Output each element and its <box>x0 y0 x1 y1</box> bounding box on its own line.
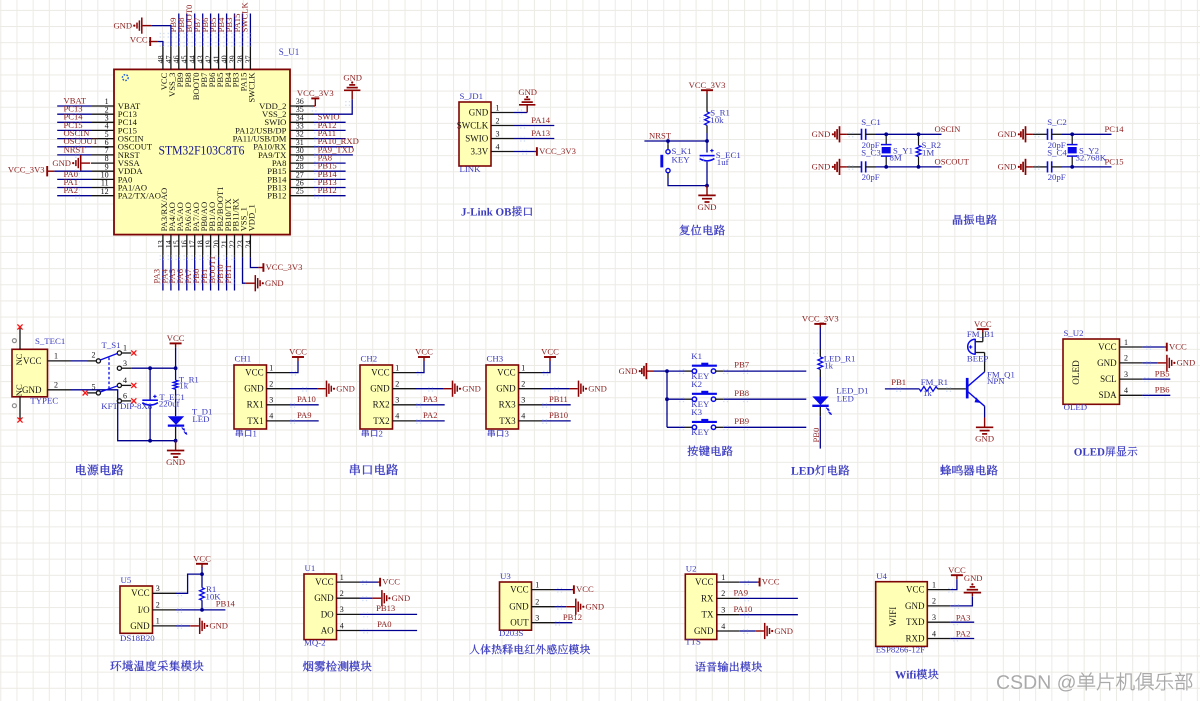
svg-text:U3: U3 <box>500 571 511 581</box>
svg-text:VCC: VCC <box>541 347 559 357</box>
svg-text:12: 12 <box>101 187 109 196</box>
svg-text:PB7: PB7 <box>734 360 750 370</box>
svg-text:NRST: NRST <box>64 144 87 154</box>
svg-text:VDD_1: VDD_1 <box>247 204 257 231</box>
svg-text:OLED: OLED <box>1064 402 1087 412</box>
svg-text:CH2: CH2 <box>361 354 378 364</box>
svg-text:DO: DO <box>321 609 334 619</box>
svg-text:K2: K2 <box>691 379 702 389</box>
svg-text:PB10: PB10 <box>549 410 568 420</box>
svg-text:3.3V: 3.3V <box>471 146 489 156</box>
svg-text:OSCIN: OSCIN <box>935 124 962 134</box>
svg-text:1: 1 <box>932 580 936 589</box>
svg-text:AO: AO <box>321 625 334 635</box>
svg-text:GND: GND <box>209 621 228 631</box>
svg-text:1: 1 <box>721 573 725 582</box>
svg-text:GND: GND <box>619 366 638 376</box>
svg-text:1: 1 <box>535 580 539 589</box>
svg-text:1M: 1M <box>922 147 934 157</box>
svg-text:RX2: RX2 <box>373 400 390 410</box>
svg-text:1k: 1k <box>923 388 932 398</box>
svg-text:1: 1 <box>1124 338 1128 347</box>
svg-text:2: 2 <box>521 380 525 389</box>
svg-text:PB5: PB5 <box>1155 369 1170 379</box>
svg-text:5: 5 <box>92 382 96 391</box>
svg-text:GND: GND <box>244 384 264 394</box>
svg-text:PB11: PB11 <box>549 394 568 404</box>
svg-text:GND: GND <box>392 593 411 603</box>
svg-text:RX: RX <box>701 593 714 603</box>
svg-text:GND: GND <box>586 602 605 612</box>
svg-text:RXD: RXD <box>905 633 925 643</box>
svg-text:RX1: RX1 <box>247 400 264 410</box>
svg-text:2: 2 <box>54 380 58 389</box>
svg-text:GND: GND <box>697 202 716 212</box>
svg-text:VCC: VCC <box>497 368 516 378</box>
svg-text:OUT: OUT <box>510 618 529 628</box>
svg-text:S_C3: S_C3 <box>861 148 881 158</box>
svg-text:VCC: VCC <box>23 356 42 366</box>
svg-text:VCC: VCC <box>167 333 185 343</box>
svg-text:GND: GND <box>469 107 489 117</box>
svg-text:37: 37 <box>244 55 253 63</box>
svg-text:PA2/TX/AO: PA2/TX/AO <box>118 191 161 201</box>
svg-text:PB12: PB12 <box>563 612 582 622</box>
svg-text:WIFI: WIFI <box>888 607 898 627</box>
svg-text:U1: U1 <box>305 563 316 573</box>
svg-text:LED: LED <box>192 414 209 424</box>
svg-text:1uf: 1uf <box>717 157 729 167</box>
svg-text:OSCOUT: OSCOUT <box>935 157 970 167</box>
svg-text:PA9: PA9 <box>297 410 312 420</box>
svg-text:GND: GND <box>1177 358 1196 368</box>
svg-text:2: 2 <box>535 598 539 607</box>
svg-text:PA9: PA9 <box>734 588 749 598</box>
svg-text:1: 1 <box>340 573 344 582</box>
svg-text:TXD: TXD <box>906 617 925 627</box>
svg-text:VCC: VCC <box>315 577 334 587</box>
svg-text:VCC_3V3: VCC_3V3 <box>802 314 839 324</box>
svg-text:VCC_3V3: VCC_3V3 <box>8 164 45 174</box>
svg-text:1: 1 <box>395 363 399 372</box>
svg-text:TTS: TTS <box>685 637 701 647</box>
svg-text:PB13: PB13 <box>376 603 395 613</box>
svg-text:4: 4 <box>721 622 725 631</box>
svg-text:U5: U5 <box>121 575 132 585</box>
svg-text:GND: GND <box>998 129 1017 139</box>
svg-text:S_JD1: S_JD1 <box>460 91 483 101</box>
svg-text:2: 2 <box>92 350 96 359</box>
svg-text:STM32F103C8T6: STM32F103C8T6 <box>159 143 245 158</box>
svg-text:GND: GND <box>964 573 983 583</box>
svg-text:2: 2 <box>932 597 936 606</box>
svg-text:2: 2 <box>721 589 725 598</box>
svg-text:MQ-2: MQ-2 <box>304 637 326 647</box>
svg-text:3: 3 <box>340 605 344 614</box>
svg-text:VCC_3V3: VCC_3V3 <box>539 146 576 156</box>
svg-text:4: 4 <box>1124 386 1128 395</box>
svg-text:PB1: PB1 <box>891 377 906 387</box>
svg-text:NRST: NRST <box>649 130 672 140</box>
svg-text:10k: 10k <box>710 115 724 125</box>
svg-text:U4: U4 <box>876 571 887 581</box>
svg-text:GND: GND <box>588 384 607 394</box>
svg-text:FM_R1: FM_R1 <box>921 377 948 387</box>
svg-text:VCC: VCC <box>382 577 400 587</box>
svg-text:GND: GND <box>336 384 355 394</box>
svg-text:S_U2: S_U2 <box>1064 328 1084 338</box>
svg-text:GND: GND <box>905 601 925 611</box>
svg-text:GND: GND <box>343 72 362 82</box>
svg-text:1: 1 <box>521 363 525 372</box>
svg-text:24: 24 <box>244 240 253 248</box>
svg-text:VCC_3V3: VCC_3V3 <box>689 80 726 90</box>
svg-text:U2: U2 <box>686 563 697 573</box>
svg-text:VCC: VCC <box>289 347 307 357</box>
svg-text:VCC: VCC <box>576 584 594 594</box>
svg-text:GND: GND <box>113 20 132 30</box>
svg-text:32.768K: 32.768K <box>1076 152 1107 162</box>
svg-text:RX3: RX3 <box>499 400 517 410</box>
svg-text:TX3: TX3 <box>499 416 516 426</box>
svg-text:VCC: VCC <box>762 577 780 587</box>
svg-text:OLED: OLED <box>1071 360 1081 385</box>
svg-text:KEY: KEY <box>672 155 691 165</box>
svg-text:SWCLK: SWCLK <box>240 2 250 33</box>
svg-text:CH1: CH1 <box>235 354 252 364</box>
svg-text:4: 4 <box>123 376 127 385</box>
svg-text:PB9: PB9 <box>734 416 749 426</box>
svg-text:3: 3 <box>395 396 399 405</box>
svg-text:VCC: VCC <box>695 577 714 587</box>
svg-text:S_C4: S_C4 <box>1047 148 1067 158</box>
svg-text:PA10: PA10 <box>297 394 316 404</box>
svg-text:PC15: PC15 <box>1105 157 1124 167</box>
svg-text:S_C2: S_C2 <box>1047 117 1067 127</box>
svg-text:PA13: PA13 <box>531 128 550 138</box>
svg-text:4: 4 <box>521 412 525 421</box>
svg-text:K3: K3 <box>691 407 702 417</box>
svg-text:GND: GND <box>518 87 537 97</box>
svg-text:4: 4 <box>496 142 500 151</box>
svg-text:GND: GND <box>694 626 714 636</box>
svg-text:GND: GND <box>812 129 831 139</box>
svg-text:PA0: PA0 <box>377 619 392 629</box>
svg-text:SWCLK: SWCLK <box>247 72 257 103</box>
svg-text:VCC: VCC <box>510 585 529 595</box>
svg-text:3: 3 <box>496 129 500 138</box>
svg-text:VCC: VCC <box>130 35 148 45</box>
svg-text:PA2: PA2 <box>64 185 79 195</box>
svg-text:25: 25 <box>296 187 304 196</box>
svg-text:ESP8266-12F: ESP8266-12F <box>876 645 925 655</box>
svg-text:S_U1: S_U1 <box>279 47 300 57</box>
svg-text:VCC: VCC <box>1169 342 1187 352</box>
svg-text:GND: GND <box>1097 358 1117 368</box>
svg-text:SCL: SCL <box>1100 374 1117 384</box>
svg-text:PC14: PC14 <box>1105 124 1125 134</box>
svg-text:3: 3 <box>932 613 936 622</box>
svg-text:SDA: SDA <box>1099 390 1118 400</box>
svg-text:S_C1: S_C1 <box>861 117 881 127</box>
svg-text:4: 4 <box>395 412 399 421</box>
svg-text:TX1: TX1 <box>247 416 264 426</box>
svg-text:GND: GND <box>370 384 390 394</box>
svg-text:2: 2 <box>156 601 160 610</box>
svg-text:PA2: PA2 <box>423 410 438 420</box>
svg-text:VCC: VCC <box>131 588 150 598</box>
svg-text:D203S: D203S <box>499 628 524 638</box>
svg-text:3: 3 <box>535 614 539 623</box>
svg-text:GND: GND <box>812 162 831 172</box>
svg-text:1: 1 <box>54 351 58 360</box>
svg-text:GND: GND <box>509 602 529 612</box>
svg-text:20pF: 20pF <box>1048 172 1066 182</box>
svg-text:VCC: VCC <box>1098 342 1117 352</box>
svg-text:GND: GND <box>166 457 185 467</box>
svg-text:KEY: KEY <box>691 427 710 437</box>
svg-text:3: 3 <box>156 584 160 593</box>
svg-text:BEEP: BEEP <box>967 354 989 364</box>
svg-text:3: 3 <box>1124 370 1128 379</box>
svg-text:PA10: PA10 <box>734 604 753 614</box>
svg-text:CH3: CH3 <box>487 354 504 364</box>
svg-text:PB6: PB6 <box>1155 385 1171 395</box>
svg-text:VCC_3V3: VCC_3V3 <box>266 262 303 272</box>
svg-text:3: 3 <box>721 606 725 615</box>
svg-text:GND: GND <box>462 384 481 394</box>
svg-text:VCC: VCC <box>371 368 390 378</box>
svg-text:GND: GND <box>22 385 42 395</box>
svg-text:PB11: PB11 <box>223 265 233 284</box>
svg-text:1: 1 <box>123 344 127 353</box>
svg-text:1k: 1k <box>179 380 188 390</box>
svg-text:VCC: VCC <box>193 554 211 564</box>
svg-text:GND: GND <box>998 162 1017 172</box>
svg-text:VCC: VCC <box>906 585 925 595</box>
svg-text:PB12: PB12 <box>267 191 286 201</box>
svg-text:220uf: 220uf <box>159 399 180 409</box>
svg-text:PB8: PB8 <box>734 388 749 398</box>
svg-text:2: 2 <box>496 116 500 125</box>
svg-text:DS18B20: DS18B20 <box>120 633 155 643</box>
svg-text:1: 1 <box>496 103 500 112</box>
svg-text:PB0: PB0 <box>811 428 821 443</box>
svg-text:GND: GND <box>265 278 284 288</box>
svg-text:SWCLK: SWCLK <box>457 120 489 130</box>
svg-text:S_TEC1: S_TEC1 <box>35 336 65 346</box>
svg-text:GND: GND <box>130 621 150 631</box>
svg-text:NPN: NPN <box>987 376 1005 386</box>
svg-text:4: 4 <box>340 621 344 630</box>
svg-text:LINK: LINK <box>460 164 482 174</box>
svg-text:TX: TX <box>702 610 714 620</box>
svg-text:PA14: PA14 <box>531 115 550 125</box>
svg-text:3: 3 <box>521 396 525 405</box>
svg-text:1: 1 <box>156 617 160 626</box>
svg-text:4: 4 <box>269 412 273 421</box>
svg-text:2: 2 <box>269 380 273 389</box>
svg-text:GND: GND <box>975 434 994 444</box>
svg-text:GND: GND <box>314 593 334 603</box>
svg-text:2: 2 <box>340 589 344 598</box>
svg-text:SWIO: SWIO <box>465 133 488 143</box>
svg-text:VCC: VCC <box>415 347 433 357</box>
svg-text:PA3: PA3 <box>423 394 438 404</box>
svg-text:T_S1: T_S1 <box>102 340 121 350</box>
svg-text:I/O: I/O <box>138 605 150 615</box>
svg-text:VCC_3V3: VCC_3V3 <box>297 88 334 98</box>
svg-text:PB12: PB12 <box>318 185 337 195</box>
svg-text:2: 2 <box>1124 354 1128 363</box>
svg-text:K1: K1 <box>691 351 702 361</box>
svg-text:20pF: 20pF <box>862 172 880 182</box>
svg-text:VCC: VCC <box>245 368 264 378</box>
svg-text:3: 3 <box>269 396 273 405</box>
svg-text:2: 2 <box>395 380 399 389</box>
svg-text:8M: 8M <box>890 152 902 162</box>
svg-text:3: 3 <box>123 359 127 368</box>
svg-text:4: 4 <box>932 629 936 638</box>
svg-text:LED: LED <box>837 393 854 403</box>
svg-text:KFT DIP-8X8: KFT DIP-8X8 <box>101 401 153 411</box>
svg-text:6: 6 <box>123 392 127 401</box>
svg-text:1: 1 <box>269 363 273 372</box>
svg-text:1k: 1k <box>824 361 833 371</box>
svg-text:TX2: TX2 <box>373 416 390 426</box>
svg-text:VCC: VCC <box>974 319 992 329</box>
svg-text:GND: GND <box>52 158 71 168</box>
svg-text:GND: GND <box>496 384 516 394</box>
svg-text:FM_B1: FM_B1 <box>967 329 994 339</box>
svg-text:PB14: PB14 <box>216 599 236 609</box>
svg-text:GND: GND <box>774 626 793 636</box>
